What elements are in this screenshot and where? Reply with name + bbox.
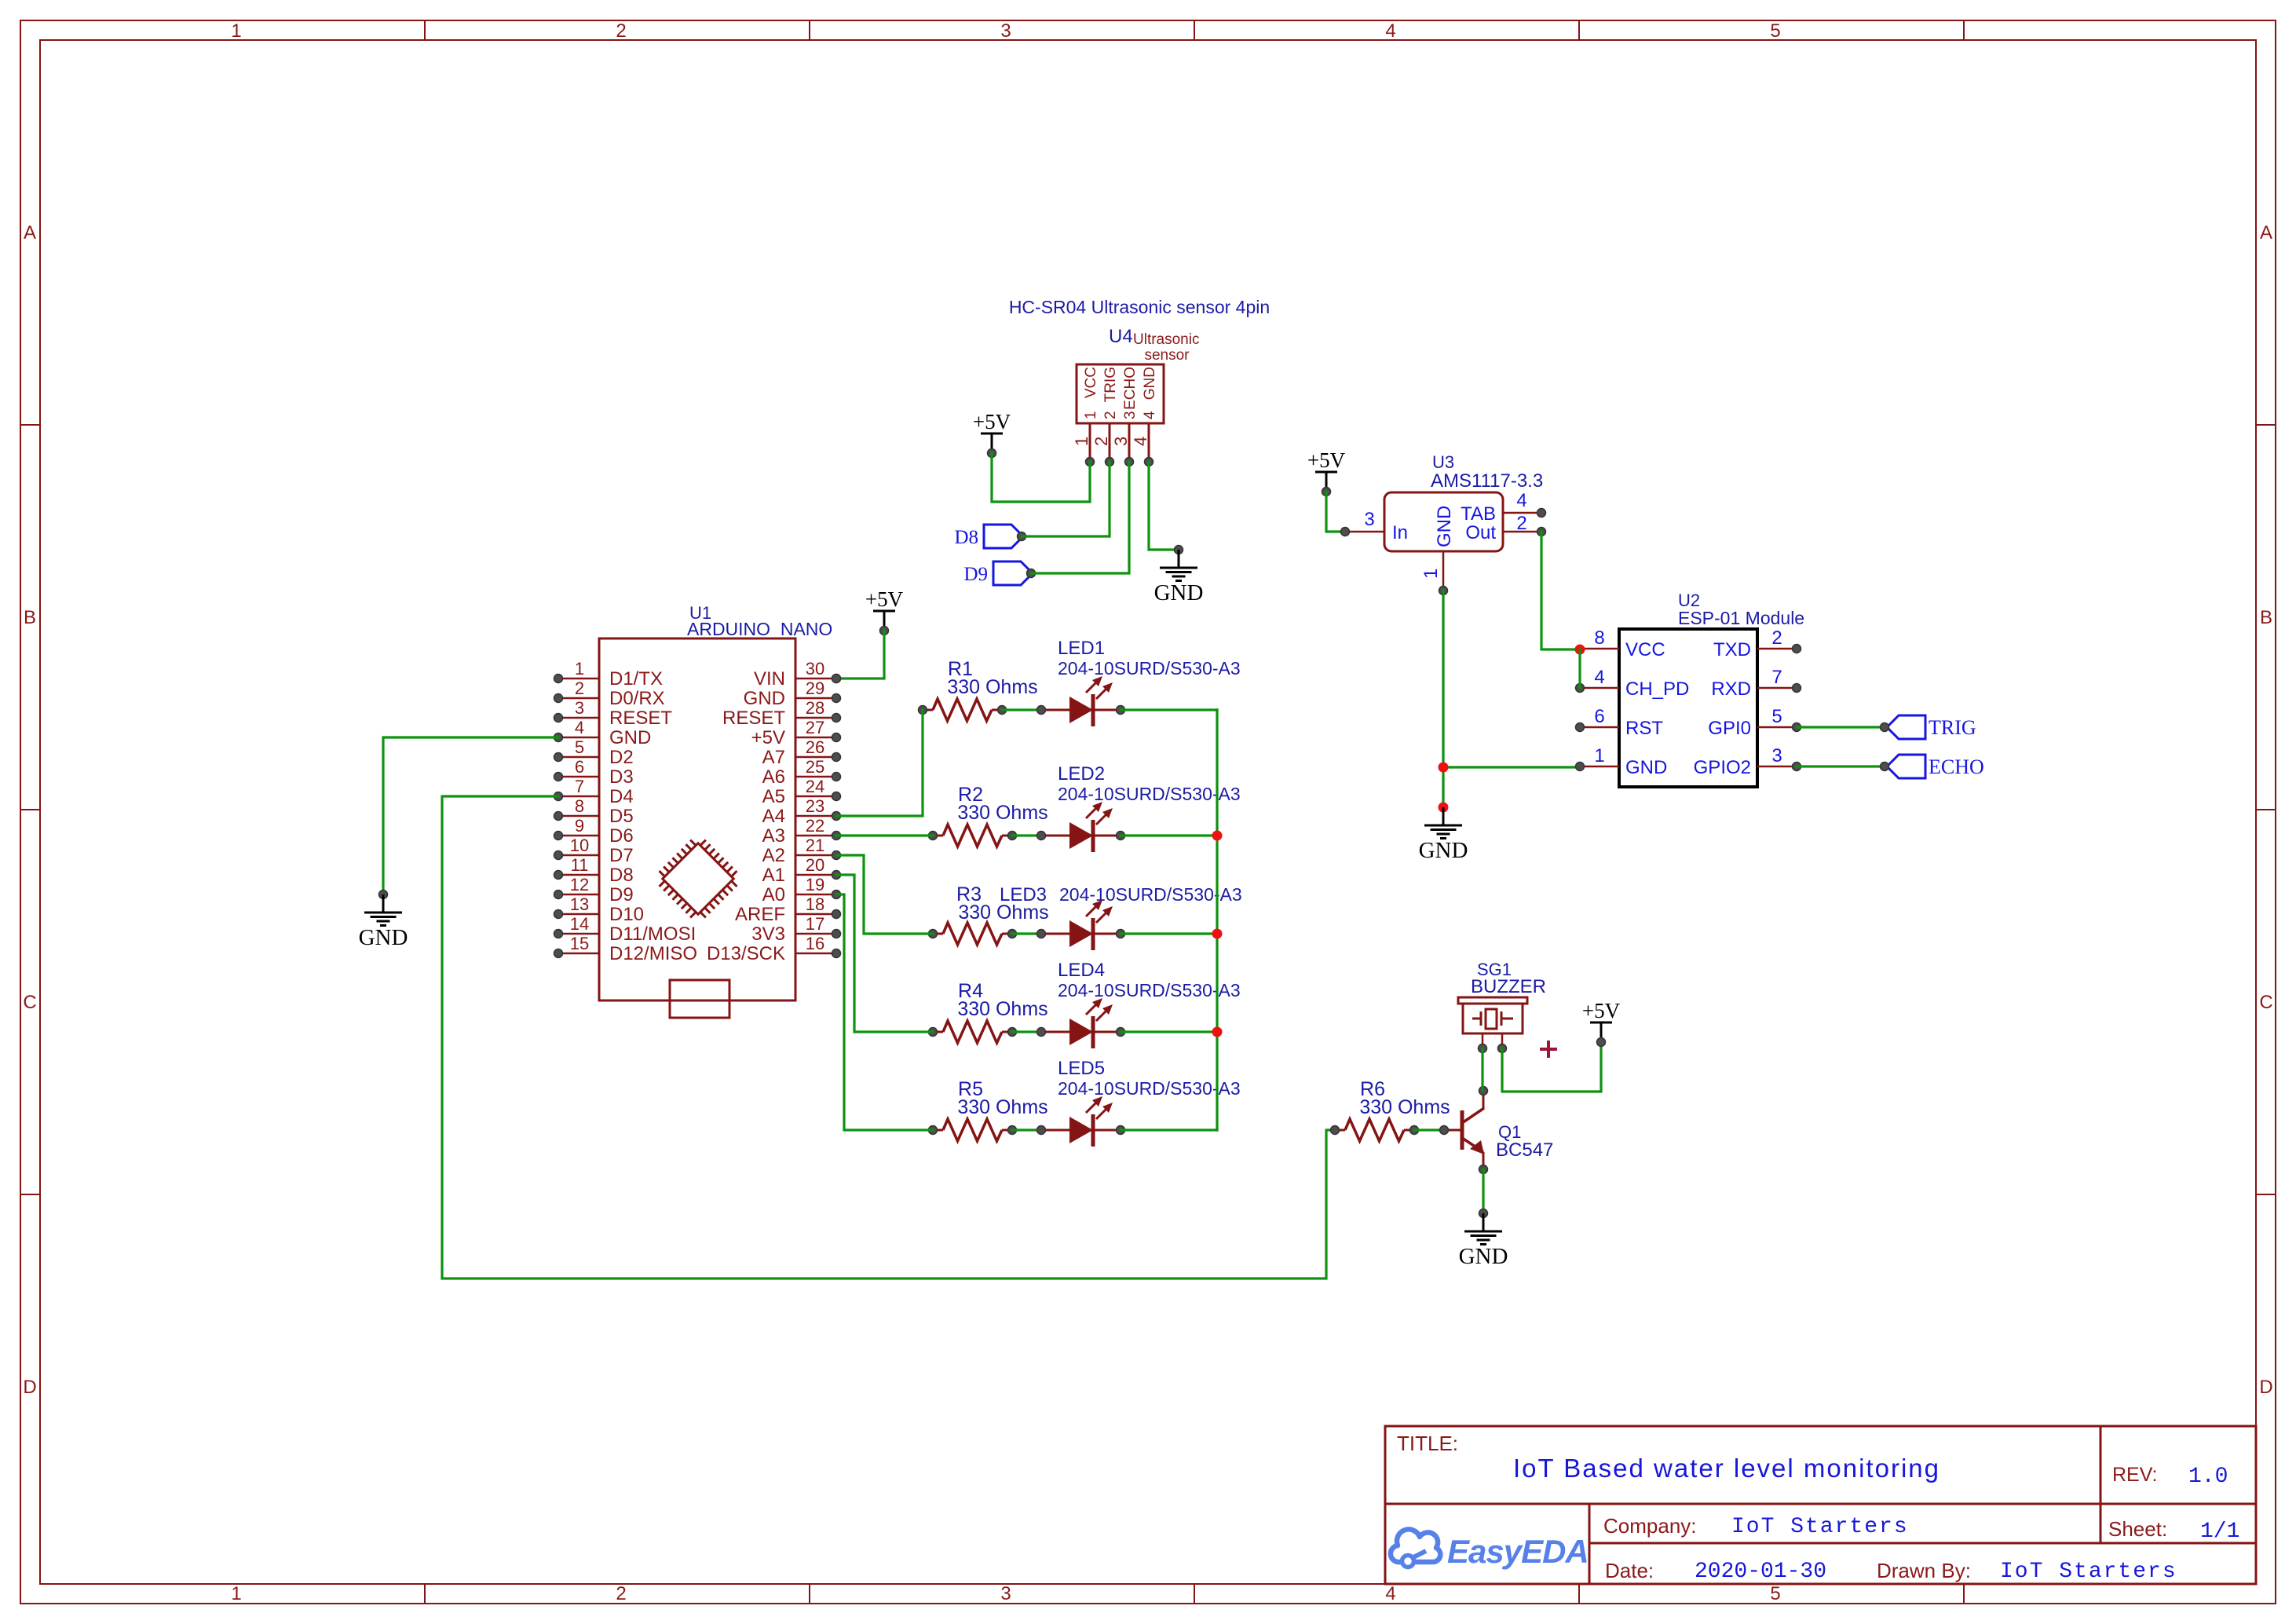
svg-text:2: 2 [1771, 627, 1782, 649]
svg-text:GPIO2: GPIO2 [1694, 757, 1751, 778]
svg-text:204-10SURD/S530-A3: 204-10SURD/S530-A3 [1058, 658, 1241, 678]
svg-text:A2: A2 [762, 845, 785, 866]
svg-text:4: 4 [1516, 490, 1526, 511]
svg-text:12: 12 [570, 875, 589, 894]
U1 pin 16 (D13/SCK) [795, 953, 835, 955]
svg-text:LED4: LED4 [1058, 960, 1105, 981]
EasyEDA logo [1391, 1529, 1589, 1570]
svg-text:8: 8 [575, 796, 584, 816]
U1 pin 3 (RESET) [560, 717, 599, 719]
U2 pin 4 (CH_PD) [1580, 687, 1619, 689]
U1 pin 29 (GND) [795, 697, 835, 700]
U1 pin 4 (GND) [560, 737, 599, 739]
svg-text:1: 1 [231, 1583, 241, 1604]
LED2 [1041, 835, 1069, 837]
U1 pin 20 (A1) [795, 874, 835, 876]
svg-text:CH_PD: CH_PD [1625, 678, 1689, 700]
svg-text:BUZZER: BUZZER [1471, 976, 1546, 997]
wire U3 Out to U2 VCC [1541, 532, 1580, 649]
U2 pin 7 (RXD) [1757, 687, 1797, 689]
buzzer SG1 [1458, 997, 1527, 1033]
plus sign [1540, 1041, 1557, 1058]
svg-text:D8: D8 [954, 527, 978, 548]
wire buzzer pin1 to Q1 collector [1481, 1048, 1483, 1091]
svg-text:330 Ohms: 330 Ohms [957, 1096, 1047, 1118]
svg-text:5: 5 [575, 737, 584, 757]
U1 pin 27 (+5V) [795, 737, 835, 739]
U3 pin 2 (Out) [1503, 531, 1541, 533]
svg-text:GND: GND [1459, 1244, 1508, 1269]
svg-text:2: 2 [616, 20, 626, 42]
U3 pin 4 (TAB) [1503, 512, 1541, 514]
svg-text:5: 5 [1770, 1583, 1780, 1604]
wire A1 pin20 to R4 [836, 875, 933, 1032]
svg-text:HC-SR04 Ultrasonic sensor 4pin: HC-SR04 Ultrasonic sensor 4pin [1009, 297, 1270, 317]
svg-text:U4: U4 [1109, 326, 1133, 347]
ground symbol (U1 GND) [379, 891, 388, 899]
ESP-01 U2 body [1619, 629, 1757, 787]
svg-text:VIN: VIN [754, 668, 785, 689]
svg-text:3: 3 [1364, 509, 1374, 530]
wire A3 pin22 to R2 [836, 834, 933, 836]
svg-text:A3: A3 [762, 825, 785, 847]
transistor Q1 [1444, 1129, 1461, 1132]
svg-text:D2: D2 [609, 747, 634, 768]
resistor R6 [1335, 1129, 1345, 1132]
svg-text:4: 4 [575, 718, 584, 737]
net flag D8 [984, 525, 1023, 548]
svg-text:D4: D4 [609, 786, 634, 807]
svg-text:19: 19 [806, 875, 824, 894]
wire +5V to U4 VCC [992, 453, 1090, 502]
svg-text:Ultrasonic: Ultrasonic [1133, 331, 1199, 348]
U4 pin 3 (ECHO) [1128, 423, 1131, 462]
svg-text:15: 15 [570, 934, 589, 953]
svg-text:D8: D8 [609, 865, 634, 886]
wire LED1 to cathode trunk [1121, 708, 1217, 711]
svg-text:28: 28 [806, 698, 824, 718]
LED5 [1041, 1129, 1069, 1132]
wire U1 D4 pin7 to R6 (bottom run) [442, 796, 1335, 1278]
resistor R3 [933, 933, 943, 935]
svg-text:LED5: LED5 [1058, 1058, 1105, 1079]
wire A4 pin23 to R1 [836, 710, 923, 816]
svg-text:TXD: TXD [1713, 639, 1751, 660]
U1 pin 7 (D4) [560, 796, 599, 798]
U1 usb connector icon [670, 980, 729, 1018]
wire R1 to LED1 [1002, 708, 1041, 711]
wire R3 to LED3 [1012, 932, 1041, 935]
ultrasonic sensor U4 body [1077, 364, 1164, 423]
svg-text:25: 25 [806, 757, 824, 777]
wire U2 VCC to CH_PD [1578, 649, 1581, 688]
wire R4 to LED4 [1012, 1030, 1041, 1033]
U1 pin 9 (D6) [560, 835, 599, 837]
svg-text:18: 18 [806, 894, 824, 914]
wire LED4 to cathode trunk [1121, 1030, 1217, 1033]
svg-text:2020-01-30: 2020-01-30 [1695, 1560, 1826, 1584]
svg-text:1: 1 [575, 659, 584, 678]
svg-text:27: 27 [806, 718, 824, 737]
svg-text:GND: GND [1154, 580, 1204, 605]
svg-text:3: 3 [1122, 411, 1139, 419]
U1 pin 25 (A6) [795, 776, 835, 778]
svg-text:+5V: +5V [1307, 448, 1346, 472]
svg-text:22: 22 [806, 816, 824, 836]
U1 pin 30 (VIN) [795, 678, 835, 680]
svg-text:30: 30 [806, 659, 824, 678]
wire U3 GND to U2 GND [1443, 766, 1580, 768]
svg-text:RXD: RXD [1711, 678, 1751, 700]
U1 pin 26 (A7) [795, 756, 835, 759]
svg-text:4: 4 [1131, 437, 1150, 446]
U1 pin 5 (D2) [560, 756, 599, 759]
svg-text:4: 4 [1594, 667, 1604, 688]
svg-text:IoT Starters: IoT Starters [1731, 1515, 1909, 1539]
svg-text:GND: GND [1142, 367, 1158, 400]
svg-text:RST: RST [1625, 718, 1663, 739]
U1 pin 19 (A0) [795, 894, 835, 896]
svg-text:D3: D3 [609, 766, 634, 788]
svg-text:24: 24 [806, 777, 824, 796]
svg-text:+5V: +5V [1582, 999, 1621, 1022]
wire buzzer pin2 to +5V [1502, 1042, 1601, 1092]
svg-text:Sheet:: Sheet: [2108, 1517, 2167, 1541]
wire U4 GND pin4 to ground [1149, 462, 1179, 550]
svg-text:A1: A1 [762, 865, 785, 886]
U4 pin 2 (TRIG) [1109, 423, 1111, 462]
junction dots on trunk [1212, 831, 1223, 841]
svg-text:204-10SURD/S530-A3: 204-10SURD/S530-A3 [1058, 784, 1241, 804]
svg-text:10: 10 [570, 836, 589, 855]
svg-text:2: 2 [1102, 411, 1119, 419]
wire Q1 emitter to ground [1482, 1169, 1484, 1213]
resistor R4 [933, 1031, 943, 1033]
resistor R5 [933, 1129, 943, 1132]
resistor R1 [923, 709, 933, 711]
svg-text:330 Ohms: 330 Ohms [957, 998, 1047, 1020]
svg-text:D5: D5 [609, 806, 634, 827]
wire U1 GND pin4 to ground [383, 737, 558, 894]
svg-text:ECHO: ECHO [1929, 755, 1984, 778]
U1 pin 15 (D12/MISO) [560, 953, 599, 955]
U1 pin 11 (D8) [560, 874, 599, 876]
wire LED3 to cathode trunk [1121, 932, 1217, 935]
svg-text:3: 3 [1000, 1583, 1011, 1604]
svg-text:In: In [1392, 522, 1408, 543]
svg-text:D: D [23, 1377, 36, 1398]
svg-text:ARDUINO_NANO: ARDUINO_NANO [687, 619, 832, 639]
svg-text:D: D [2259, 1377, 2272, 1398]
wire D9 to U4 ECHO [1031, 462, 1129, 573]
svg-text:REV:: REV: [2112, 1464, 2157, 1486]
svg-text:2: 2 [1516, 513, 1526, 534]
svg-text:VCC: VCC [1625, 639, 1665, 660]
svg-text:1: 1 [231, 20, 241, 42]
svg-text:EasyEDA: EasyEDA [1447, 1533, 1589, 1570]
svg-text:3: 3 [1771, 745, 1782, 766]
svg-text:14: 14 [570, 914, 589, 934]
svg-text:A6: A6 [762, 766, 785, 788]
svg-text:D0/RX: D0/RX [609, 688, 665, 709]
arduino U1 body [599, 638, 795, 1000]
ground symbol (Q1) [1479, 1209, 1488, 1218]
svg-text:23: 23 [806, 796, 824, 816]
svg-text:6: 6 [575, 757, 584, 777]
wire LED5 to cathode trunk [1121, 1128, 1217, 1131]
svg-text:3: 3 [575, 698, 584, 718]
svg-text:11: 11 [571, 855, 589, 875]
U1 pin 13 (D10) [560, 913, 599, 916]
svg-text:GND: GND [1434, 506, 1455, 547]
wire U2 GPI0 to TRIG flag [1797, 726, 1885, 728]
wire R6 to Q1 base [1414, 1128, 1444, 1131]
wire D8 to U4 TRIG [1022, 462, 1110, 536]
LED4 [1041, 1031, 1069, 1033]
U2 pin 1 (GND) [1580, 766, 1619, 768]
net flag D9 [993, 561, 1033, 585]
U1 pin 6 (D3) [560, 776, 599, 778]
svg-text:3V3: 3V3 [751, 924, 785, 945]
svg-text:8: 8 [1594, 627, 1604, 649]
svg-text:Date:: Date: [1605, 1559, 1654, 1582]
svg-text:5: 5 [1771, 706, 1782, 727]
svg-text:6: 6 [1594, 706, 1604, 727]
wire A2 pin21 to R3 [836, 855, 933, 934]
svg-text:LED1: LED1 [1058, 638, 1105, 659]
svg-text:1: 1 [1072, 437, 1091, 446]
svg-text:TITLE:: TITLE: [1397, 1432, 1458, 1455]
U1 chip icon [652, 832, 745, 926]
wire +5V to VIN pin30 [836, 631, 884, 678]
svg-text:D11/MOSI: D11/MOSI [609, 924, 696, 945]
svg-text:GPI0: GPI0 [1708, 718, 1751, 739]
U1 pin 17 (3V3) [795, 933, 835, 935]
U1 pin 22 (A3) [795, 835, 835, 837]
svg-text:D12/MISO: D12/MISO [609, 943, 697, 964]
svg-text:Out: Out [1465, 522, 1496, 543]
U2 pin 6 (RST) [1580, 726, 1619, 729]
U2 pin 3 (GPIO2) [1757, 766, 1797, 768]
svg-text:17: 17 [806, 914, 824, 934]
svg-text:BC547: BC547 [1496, 1139, 1553, 1161]
U4 pin 1 (VCC) [1089, 423, 1091, 462]
svg-text:TAB: TAB [1461, 503, 1496, 525]
svg-text:A4: A4 [762, 806, 785, 827]
svg-text:B: B [2260, 607, 2272, 628]
svg-text:13: 13 [570, 894, 589, 914]
svg-text:C: C [2259, 992, 2272, 1013]
svg-text:1: 1 [1420, 569, 1442, 579]
svg-text:20: 20 [806, 855, 824, 875]
svg-text:3: 3 [1000, 20, 1011, 42]
svg-text:2: 2 [616, 1583, 626, 1604]
svg-text:16: 16 [806, 934, 824, 953]
svg-text:GND: GND [1625, 757, 1667, 778]
svg-text:IoT Starters: IoT Starters [2000, 1560, 2177, 1584]
svg-text:ESP-01 Module: ESP-01 Module [1678, 608, 1804, 628]
ground symbol (U4) [1175, 546, 1183, 554]
svg-text:1: 1 [1594, 745, 1604, 766]
net flag TRIG [1887, 715, 1925, 739]
wire U2 GPIO2 to ECHO flag [1797, 765, 1885, 767]
svg-text:D9: D9 [609, 884, 634, 905]
svg-text:1/1: 1/1 [2200, 1520, 2239, 1544]
regulator U3 body [1384, 492, 1503, 551]
svg-text:IoT Based water level monitori: IoT Based water level monitoring [1513, 1454, 1940, 1483]
svg-text:A: A [24, 222, 36, 243]
svg-text:7: 7 [575, 777, 584, 796]
U1 pin 24 (A5) [795, 796, 835, 798]
svg-text:1: 1 [1083, 411, 1099, 419]
U1 pin 18 (AREF) [795, 913, 835, 916]
svg-text:330 Ohms: 330 Ohms [958, 902, 1048, 924]
svg-text:RESET: RESET [722, 708, 785, 729]
svg-text:2: 2 [1091, 437, 1111, 446]
wire R2 to LED2 [1012, 834, 1041, 836]
svg-text:A: A [2260, 222, 2272, 243]
svg-text:29: 29 [806, 678, 824, 698]
wire U3 GND down [1442, 591, 1444, 807]
junction dots U3 GND net [1439, 763, 1449, 773]
svg-text:204-10SURD/S530-A3: 204-10SURD/S530-A3 [1058, 1078, 1241, 1099]
svg-text:TRIG: TRIG [1929, 716, 1976, 739]
svg-text:1.0: 1.0 [2188, 1465, 2228, 1489]
wire R5 to LED5 [1012, 1128, 1041, 1131]
U1 pin 12 (D9) [560, 894, 599, 896]
svg-text:Company:: Company: [1603, 1514, 1697, 1538]
U2 pin 5 (GPI0) [1757, 726, 1797, 729]
svg-text:GND: GND [609, 727, 651, 748]
svg-text:+5V: +5V [865, 587, 904, 611]
svg-text:330 Ohms: 330 Ohms [957, 802, 1047, 824]
svg-text:21: 21 [806, 836, 824, 855]
svg-text:A7: A7 [762, 747, 785, 768]
wire cathode trunk vertical [1216, 710, 1218, 1130]
svg-text:9: 9 [575, 816, 584, 836]
U3 pin 3 (In) [1347, 531, 1384, 533]
svg-text:4: 4 [1385, 1583, 1395, 1604]
title block [1385, 1426, 2256, 1584]
svg-text:B: B [24, 607, 36, 628]
U1 pin 1 (D1/TX) [560, 678, 599, 680]
svg-text:+5V: +5V [751, 727, 785, 748]
U1 pin 14 (D11/MOSI) [560, 933, 599, 935]
net flag ECHO [1887, 755, 1925, 778]
svg-text:330 Ohms: 330 Ohms [1359, 1096, 1450, 1118]
LED3 [1041, 933, 1069, 935]
resistor R2 [933, 835, 943, 837]
U1 pin 28 (RESET) [795, 717, 835, 719]
svg-text:D1/TX: D1/TX [609, 668, 663, 689]
junction dot U2 VCC [1575, 645, 1585, 655]
svg-text:GND: GND [1419, 838, 1468, 863]
svg-text:26: 26 [806, 737, 824, 757]
U3 pin 1 (GND bottom) [1442, 551, 1445, 591]
U1 pin 10 (D7) [560, 854, 599, 857]
svg-text:A0: A0 [762, 884, 785, 905]
svg-text:4: 4 [1142, 411, 1158, 419]
svg-text:204-10SURD/S530-A3: 204-10SURD/S530-A3 [1059, 884, 1242, 905]
svg-text:3: 3 [1111, 437, 1131, 446]
svg-text:ECHO: ECHO [1122, 367, 1139, 410]
svg-text:330 Ohms: 330 Ohms [947, 676, 1037, 698]
svg-text:TRIG: TRIG [1102, 367, 1119, 402]
svg-text:VCC: VCC [1083, 367, 1099, 398]
svg-text:7: 7 [1771, 667, 1782, 688]
svg-text:AREF: AREF [735, 904, 785, 925]
U1 pin 23 (A4) [795, 815, 835, 817]
svg-text:Drawn By:: Drawn By: [1877, 1559, 1971, 1582]
U1 pin 2 (D0/RX) [560, 697, 599, 700]
svg-text:5: 5 [1770, 20, 1780, 42]
svg-text:204-10SURD/S530-A3: 204-10SURD/S530-A3 [1058, 980, 1241, 1000]
svg-text:+5V: +5V [973, 410, 1011, 433]
U1 pin 21 (A2) [795, 854, 835, 857]
wire +5V to U3 In [1326, 492, 1345, 532]
U1 pin 8 (D5) [560, 815, 599, 817]
LED1 [1041, 709, 1069, 711]
svg-text:D9: D9 [963, 564, 988, 585]
svg-text:U3: U3 [1432, 452, 1454, 472]
U2 pin 2 (TXD) [1757, 648, 1797, 650]
svg-text:RESET: RESET [609, 708, 672, 729]
svg-text:AMS1117-3.3: AMS1117-3.3 [1431, 470, 1543, 492]
svg-text:sensor: sensor [1144, 347, 1190, 364]
svg-text:2: 2 [575, 678, 584, 698]
U2 pin 8 (VCC) [1580, 648, 1619, 650]
U4 pin 4 (GND) [1148, 423, 1150, 462]
svg-text:GND: GND [359, 925, 408, 950]
svg-text:A5: A5 [762, 786, 785, 807]
wire A0 pin19 to R5 [836, 894, 933, 1130]
svg-text:D6: D6 [609, 825, 634, 847]
wire LED2 to cathode trunk [1121, 834, 1217, 836]
svg-text:D7: D7 [609, 845, 634, 866]
svg-text:4: 4 [1385, 20, 1395, 42]
svg-text:D10: D10 [609, 904, 644, 925]
ground symbol (U3) [1424, 807, 1462, 839]
svg-text:GND: GND [744, 688, 785, 709]
svg-text:C: C [23, 992, 36, 1013]
svg-text:D13/SCK: D13/SCK [707, 943, 785, 964]
svg-text:LED2: LED2 [1058, 763, 1105, 785]
